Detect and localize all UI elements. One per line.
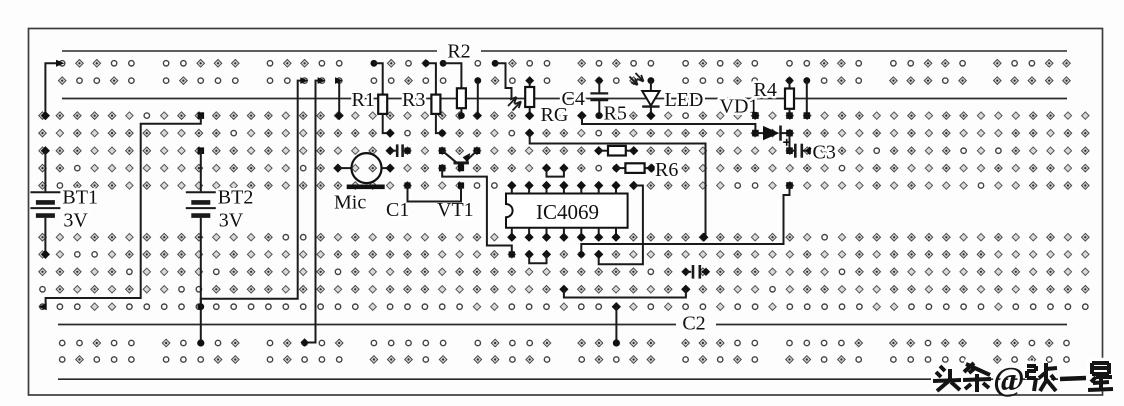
svg-text:R2: R2 [447,41,470,63]
svg-text:BT2: BT2 [218,187,254,209]
svg-text:@: @ [993,361,1025,398]
svg-text:R5: R5 [604,103,627,125]
svg-text:R6: R6 [655,159,678,181]
svg-text:C3: C3 [813,142,836,164]
svg-text:R4: R4 [754,79,777,101]
svg-text:IC4069: IC4069 [536,200,599,224]
svg-text:C4: C4 [562,88,585,110]
svg-text:C1: C1 [386,199,409,221]
svg-text:3V: 3V [219,210,244,232]
svg-text:Mic: Mic [334,192,366,214]
svg-text:R1: R1 [352,89,375,111]
svg-text:3V: 3V [63,210,88,232]
svg-text:R3: R3 [402,89,425,111]
svg-text:C2: C2 [682,313,705,335]
svg-text:BT1: BT1 [62,187,98,209]
svg-text:LED: LED [665,89,704,111]
